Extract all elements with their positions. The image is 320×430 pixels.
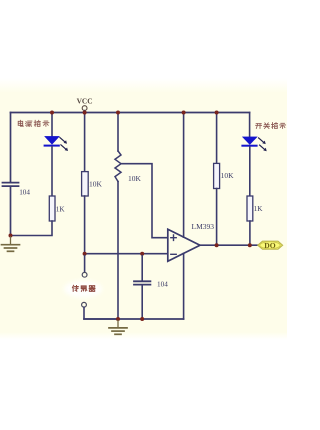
potentiometer 10K bbox=[115, 113, 142, 320]
sensor terminals 传感器 bbox=[64, 256, 118, 319]
resistor R 10K (output pull-up) bbox=[214, 113, 235, 246]
port DO bbox=[258, 241, 283, 250]
junction dots top rail bbox=[50, 111, 54, 115]
power port VCC bbox=[77, 97, 93, 113]
wire pot wiper to op-amp plus input bbox=[121, 164, 167, 238]
wire right branch from rail bbox=[249, 113, 251, 138]
wire inverting input net bbox=[85, 253, 167, 255]
svg-text:1K: 1K bbox=[56, 206, 66, 214]
resistor R 1K (right) bbox=[247, 147, 263, 245]
label 电源指示 bbox=[18, 120, 49, 126]
label 传感器 bbox=[72, 285, 95, 291]
svg-text:10K: 10K bbox=[128, 174, 142, 183]
svg-text:VCC: VCC bbox=[77, 97, 93, 106]
capacitor 104 (left) bbox=[3, 183, 31, 197]
junction dot left bottom bbox=[9, 234, 13, 238]
svg-text:LM393: LM393 bbox=[192, 222, 215, 231]
wire op-amp output bbox=[200, 244, 258, 246]
junction node cap branch bbox=[140, 252, 144, 256]
wire top VCC rail bbox=[11, 112, 250, 114]
resistor R 1K (left) bbox=[11, 147, 66, 236]
svg-text:1K: 1K bbox=[254, 205, 264, 213]
svg-text:10K: 10K bbox=[89, 180, 103, 189]
wire op-amp V+ pin to rail bbox=[183, 113, 185, 238]
junction dots output line bbox=[215, 243, 219, 247]
LED D1 电源指示 bbox=[44, 136, 68, 151]
svg-text:10K: 10K bbox=[221, 171, 235, 180]
wire op-amp gnd pin to bottom rail bbox=[183, 253, 185, 319]
wire left vertical (lower) bbox=[10, 187, 12, 236]
label 开关指示 bbox=[256, 123, 286, 129]
wire LED1 branch from rail bbox=[51, 113, 53, 137]
op-amp U1 LM393 bbox=[168, 222, 214, 261]
wire left vertical (upper) bbox=[10, 113, 12, 182]
svg-text:104: 104 bbox=[19, 188, 30, 196]
capacitor 104 (bottom) bbox=[134, 256, 168, 319]
ground (bottom) bbox=[109, 321, 127, 335]
junction node sensor top bbox=[83, 252, 87, 256]
junction dot pot/ground bbox=[116, 317, 120, 321]
ground (left) bbox=[2, 237, 20, 251]
svg-text:104: 104 bbox=[157, 281, 168, 289]
junction dot cap/ground bbox=[140, 317, 144, 321]
wire bottom ground rail bbox=[84, 318, 184, 320]
resistor R 10K (mid-left pull-up) bbox=[82, 113, 103, 254]
svg-text:DO: DO bbox=[264, 241, 275, 250]
LED D2 开关指示 bbox=[241, 137, 266, 151]
